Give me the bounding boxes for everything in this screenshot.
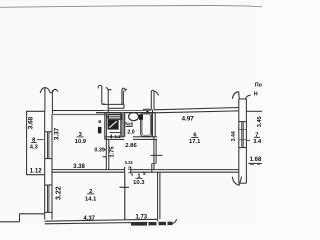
door leaf D5b <box>107 91 109 114</box>
loggia room 8 bottom wall <box>26 174 45 176</box>
room 1 left wall tick <box>120 186 130 188</box>
window W1 (room 3) double pane lines <box>47 132 49 159</box>
wc room 4 left wall <box>104 113 106 140</box>
svg-text:4.3: 4.3 <box>30 145 39 151</box>
entry door leaf D1 at stair landing <box>44 88 46 111</box>
svg-text:0.39: 0.39 <box>94 148 105 154</box>
window W3 end ticks <box>239 121 247 123</box>
door D6 on pier top <box>232 92 238 99</box>
room 6 / room 1 dividing wall <box>156 169 239 171</box>
svg-text:3.38: 3.38 <box>73 164 85 170</box>
door D5 swing curl <box>151 90 154 91</box>
room 2 bottom exterior wall <box>45 219 157 221</box>
svg-text:Пом: Пом <box>255 83 262 89</box>
exterior wall west inner line <box>51 114 53 219</box>
svg-text:3.68: 3.68 <box>28 116 35 129</box>
room 1 left wall <box>124 174 126 221</box>
door D3 corner <box>102 103 105 105</box>
room 3 top wall inner line thick <box>52 114 106 116</box>
window W2 (room 2) double pane lines <box>47 185 49 212</box>
loggia room 8 left wall <box>26 111 28 175</box>
toilet in room 5 <box>129 113 139 121</box>
window W3 (room 6) pane lines <box>241 122 243 148</box>
svg-text:1.12: 1.12 <box>30 167 43 174</box>
bath room 5 right wall / room 6 left wall <box>152 109 154 137</box>
svg-text:10.9: 10.9 <box>75 139 87 145</box>
room 6 top wall inner line <box>154 111 239 113</box>
door D3 swing curl <box>98 85 102 88</box>
hall door tick <box>103 156 107 158</box>
svg-text:4.37: 4.37 <box>83 216 95 222</box>
door D1 swing wave <box>40 88 50 93</box>
svg-text:2.86: 2.86 <box>125 143 137 149</box>
room 3 top wall outer line <box>52 110 104 112</box>
room 6 top wall outer line <box>154 108 239 110</box>
door D4 swing curl <box>122 88 127 90</box>
door leaf D2 <box>51 90 53 114</box>
window W3 mid ticks <box>239 128 247 130</box>
svg-text:3.37: 3.37 <box>53 127 60 140</box>
door leaf D4 double line <box>121 91 123 105</box>
window W2 end ticks <box>45 184 52 186</box>
neighbour step outline bottom left <box>0 221 20 223</box>
svg-text:1.73: 1.73 <box>135 214 147 220</box>
dimension leader 0.39 <box>104 149 106 151</box>
corridor door leaf D5 double <box>150 91 152 109</box>
bath block bottom wall <box>105 136 124 138</box>
svg-text:2.0: 2.0 <box>127 130 134 136</box>
svg-text:Н: Н <box>254 92 258 98</box>
bath top outer stub <box>143 108 151 110</box>
door leaf D3 <box>101 86 103 103</box>
east pier wall outer line <box>238 99 240 183</box>
svg-text:1.1: 1.1 <box>114 134 120 139</box>
water box in room 4 <box>108 115 121 120</box>
room 2 top wall (room 3 bottom) <box>52 169 125 171</box>
junction dot <box>146 111 148 113</box>
hinge blob room3 <box>98 127 102 133</box>
sink in room 4 <box>108 120 119 130</box>
door tick room 6 <box>151 154 163 156</box>
door D7 arc at pier bottom <box>232 177 239 186</box>
svg-text:3.45: 3.45 <box>257 116 262 127</box>
loggia room 7 top wall <box>246 110 262 112</box>
wc room 4 / bath room 5 divider <box>121 113 124 137</box>
loggia room 8 top wall <box>26 110 45 112</box>
east pier top cap <box>239 98 247 100</box>
bathtub <box>141 113 152 137</box>
room 1 right wall double <box>157 172 159 221</box>
window W1 end ticks <box>45 131 52 133</box>
door D2 swing arcs <box>50 89 58 93</box>
svg-text:3.4: 3.4 <box>253 139 262 145</box>
svg-text:1.68: 1.68 <box>250 157 262 163</box>
exterior wall west outer line <box>44 110 46 219</box>
page edge line <box>0 6 262 8</box>
door jamb head near room 1 <box>124 167 126 174</box>
east pier wall inner line <box>245 111 247 183</box>
svg-text:1.75: 1.75 <box>110 147 116 158</box>
dimension leader for room 8 <box>37 139 44 141</box>
wall jog <box>151 164 153 173</box>
door D5 tail <box>154 91 159 95</box>
neighbour wall hook bottom right <box>172 219 177 224</box>
svg-text:17.1: 17.1 <box>189 139 201 145</box>
rooms 4-5 top wall outer line <box>96 112 155 114</box>
svg-text:10.3: 10.3 <box>133 180 145 186</box>
door D6 flag <box>245 95 250 98</box>
vestibule box <box>102 103 124 105</box>
svg-text:4: 4 <box>110 134 113 140</box>
dimension leader for room 7 <box>247 139 251 141</box>
rooms 4-5 top wall inner line <box>106 116 121 118</box>
svg-text:3.22: 3.22 <box>55 186 62 200</box>
loggia room 7 bottom parapet <box>248 162 262 164</box>
door D5b fork <box>106 88 108 91</box>
hall / room 3 dividing wall <box>105 139 107 169</box>
svg-text:14.1: 14.1 <box>85 197 97 203</box>
svg-text:3.44: 3.44 <box>231 131 237 141</box>
svg-text:0.22: 0.22 <box>125 160 134 165</box>
shelf line room 4 <box>110 132 121 134</box>
neighbour wall dark band at bottom edge <box>131 222 173 226</box>
svg-text:4.97: 4.97 <box>182 116 195 123</box>
